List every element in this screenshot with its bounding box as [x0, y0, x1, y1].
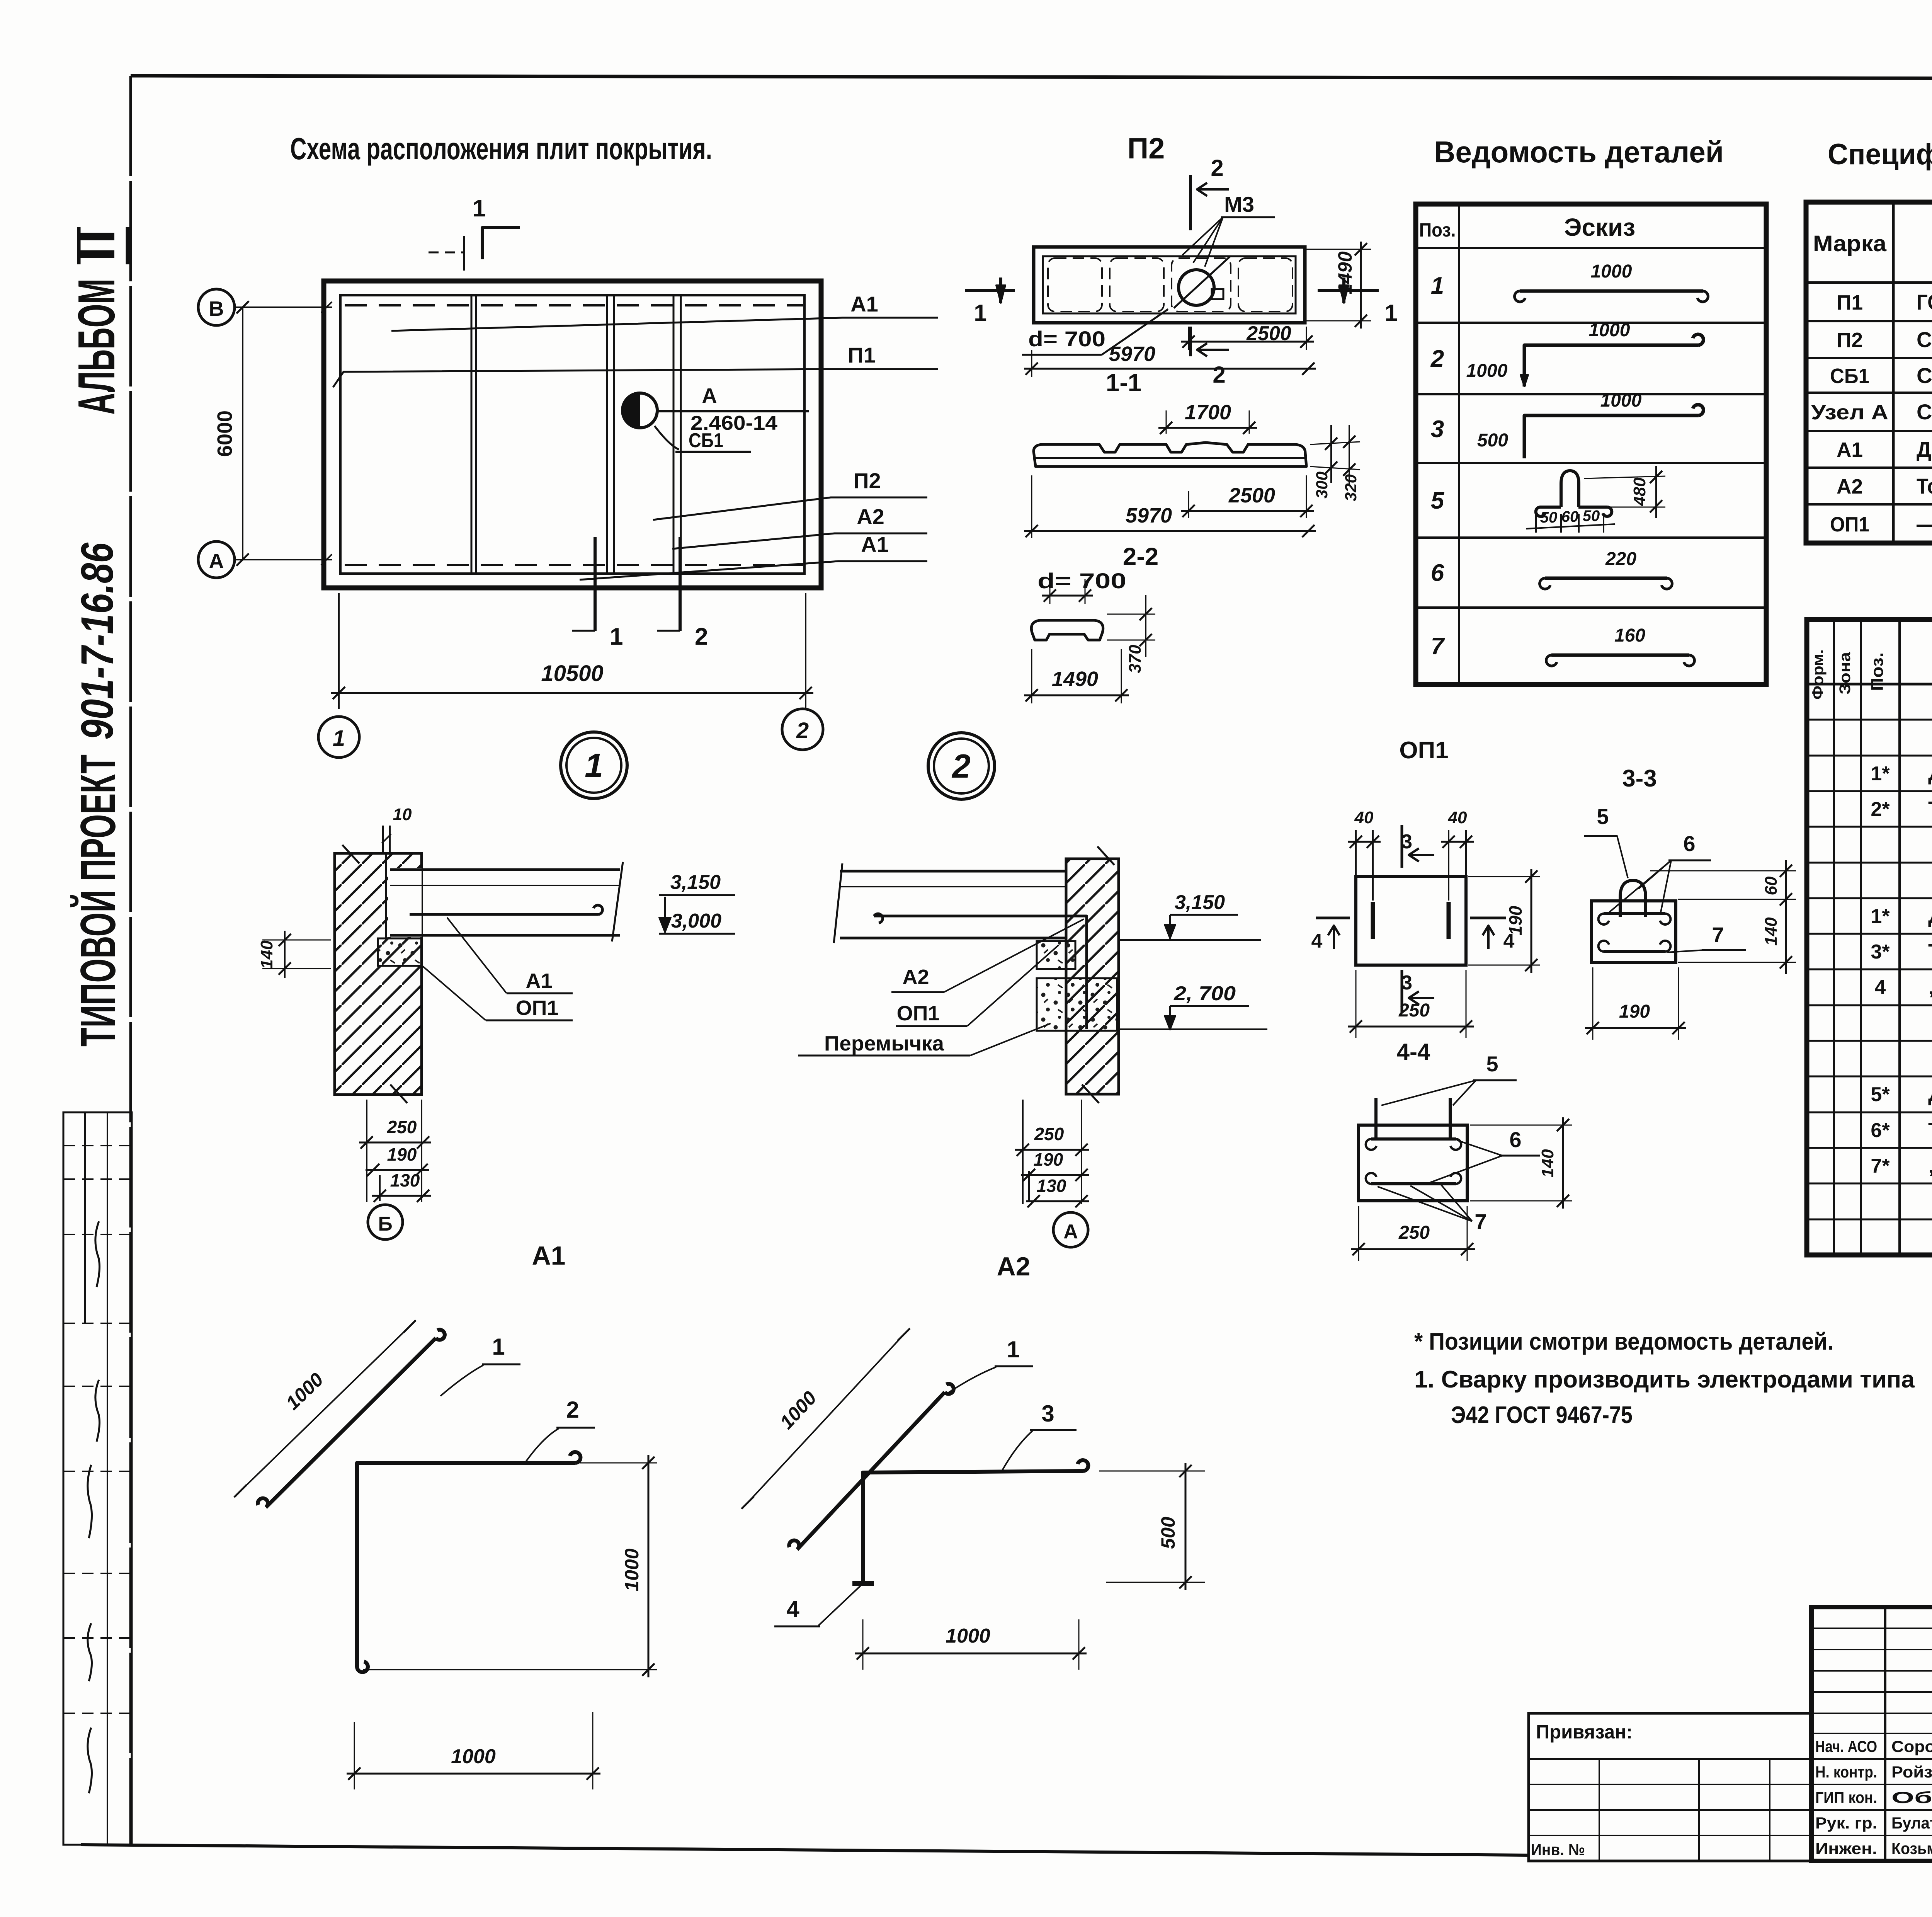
P2 dim 1490 right [1305, 249, 1371, 250]
svg-text:160: 160 [1614, 625, 1645, 646]
pos5 dim 480 [1584, 476, 1665, 478]
node A support pad stipple [1037, 941, 1075, 969]
svg-text:1. Сварку производить эл: 1. Сварку производить электродами типа [1414, 1366, 1915, 1393]
svg-text:1: 1 [1431, 272, 1444, 299]
svg-text:II: II [67, 226, 126, 261]
svg-text:2: 2 [1213, 362, 1225, 388]
spec table 2 row line [1807, 1219, 1932, 1221]
leader label A1 lower [580, 561, 927, 580]
svg-text:3: 3 [1041, 1401, 1054, 1427]
svg-text:1: 1 [333, 726, 345, 751]
svg-text:5: 5 [1486, 1052, 1498, 1076]
svg-text:220: 220 [1605, 549, 1636, 569]
left stamp strip column line 2 [107, 1112, 108, 1845]
svg-text:„: „ [1928, 1154, 1932, 1177]
svg-text:Зона: Зона [1837, 652, 1854, 695]
svg-text:140: 140 [1538, 1149, 1557, 1178]
node B slab break line [612, 862, 623, 941]
P2 dim 5970 [1031, 350, 1032, 377]
svg-text:Ройзман: Ройзман [1891, 1763, 1932, 1781]
svg-text:Марка: Марка [1813, 231, 1887, 256]
A2 pos4 plate [852, 1581, 874, 1586]
svg-text:901-7-16.86: 901-7-16.86 [72, 542, 123, 740]
svg-text:Поз.: Поз. [1419, 219, 1456, 241]
svg-text:Б: Б [378, 1213, 392, 1235]
svg-text:А1: А1 [526, 969, 552, 993]
svg-text:— „ —: — „ — [1917, 512, 1932, 536]
node B anchor bar [410, 905, 602, 914]
node B circle marker B [368, 1205, 403, 1239]
svg-text:300: 300 [1313, 472, 1331, 499]
svg-text:2500: 2500 [1228, 484, 1275, 507]
svg-text:40: 40 [1448, 808, 1467, 827]
left stamp strip row line [63, 1471, 132, 1472]
svg-text:М3: М3 [1224, 192, 1254, 216]
title block vertical lines [1884, 1607, 1886, 1861]
spec table 1 row line [1806, 503, 1932, 506]
4-4 dim 250 bottom [1358, 1206, 1359, 1261]
3-3 dim 190 bottom [1592, 967, 1594, 1040]
svg-text:Серия 2.460-14 в.0 лист3: Серия 2.460-14 в.0 лист3 [1917, 400, 1932, 424]
svg-text:3: 3 [1401, 972, 1412, 994]
rib section d=700 dim [1049, 579, 1051, 604]
svg-text:2: 2 [1430, 346, 1444, 372]
spec table 1 row line [1806, 320, 1932, 322]
spec table 2 row line [1807, 1004, 1932, 1006]
svg-text:250: 250 [1034, 1124, 1064, 1144]
OP1 dim 250 bottom [1355, 970, 1357, 1038]
node A anchor bar with down leg [874, 914, 1087, 1029]
A2 diagonal dimension 1000 [748, 1335, 904, 1503]
detail sketch pos5 lifting loop [1536, 507, 1561, 516]
svg-text:А1: А1 [850, 292, 878, 316]
svg-text:Серия 1.465.1-7/84 в.1: Серия 1.465.1-7/84 в.1 [1917, 327, 1932, 352]
svg-text:А2: А2 [902, 965, 929, 989]
svg-text:2: 2 [1211, 155, 1223, 181]
A1 diagonal bar pos1 [258, 1330, 445, 1507]
node A wall hatched [1066, 859, 1119, 1094]
svg-text:А1: А1 [532, 1241, 566, 1270]
svg-text:1700: 1700 [1185, 401, 1231, 424]
A2 right dim 500 [1099, 1471, 1205, 1472]
svg-text:3,000: 3,000 [671, 910, 721, 932]
A2 diagonal bar pos1 [789, 1384, 954, 1549]
svg-text:2: 2 [695, 623, 708, 650]
details table row line [1416, 536, 1766, 539]
left stamp strip row line [63, 1573, 132, 1574]
svg-text:1000: 1000 [1600, 390, 1642, 411]
sheet frame left line [129, 76, 132, 1845]
P2 plan rectangle [1034, 247, 1305, 323]
node B wall break marks [342, 845, 359, 863]
left stamp strip row line [63, 1323, 132, 1324]
svg-text:190: 190 [387, 1144, 417, 1165]
svg-text:„: „ [1928, 976, 1932, 999]
svg-text:А2: А2 [1837, 475, 1863, 498]
section 2-2 dim 2500 [1188, 491, 1189, 518]
P2 dim 2500 [1188, 327, 1189, 350]
P2 top section mark 2 [1189, 175, 1192, 230]
svg-text:ОП1: ОП1 [1399, 737, 1448, 764]
svg-text:7: 7 [1712, 923, 1724, 947]
left stamp strip row line [63, 1637, 132, 1639]
node A label lines [657, 410, 809, 412]
svg-text:6: 6 [1431, 560, 1444, 586]
details table row line [1416, 393, 1766, 395]
pos5 dims 50 60 50 [1536, 514, 1604, 533]
svg-text:Сорокин: Сорокин [1891, 1737, 1932, 1755]
svg-text:2, 700: 2, 700 [1173, 982, 1236, 1005]
detail circle 1 [561, 732, 627, 798]
details table row line [1416, 606, 1766, 609]
details table row line [1416, 322, 1766, 324]
spec table 1 row line [1806, 357, 1932, 359]
spec table 1 row line [1806, 466, 1932, 469]
axis leader A [235, 559, 332, 560]
svg-text:Данный лист: Данный лист [1917, 437, 1932, 461]
spec table 2 row line [1807, 1112, 1932, 1113]
svg-text:4: 4 [1875, 976, 1886, 999]
svg-text:1000: 1000 [1589, 320, 1630, 340]
svg-text:ТИПОВОЙ ПРОЕКТ: ТИПОВОЙ ПРОЕКТ [70, 754, 126, 1047]
svg-text:1*: 1* [1871, 763, 1890, 785]
svg-text:1: 1 [492, 1334, 505, 1360]
left stamp strip row line [63, 1178, 132, 1180]
spec table 1 row line [1806, 392, 1932, 394]
leader label P1 [333, 369, 938, 387]
detail sketch pos2 L-bar [1524, 334, 1703, 386]
svg-text:140: 140 [257, 940, 276, 969]
svg-text:Спецификация к схеме распо: Спецификация к схеме расположения плит п… [1828, 138, 1932, 171]
OP1 section mark 3 top [1401, 825, 1403, 868]
svg-text:d= 700: d= 700 [1028, 327, 1105, 351]
svg-text:40: 40 [1354, 808, 1374, 827]
leader label P2 [653, 497, 927, 520]
svg-text:500: 500 [1157, 1517, 1179, 1549]
spec table 2 row line [1807, 1040, 1932, 1042]
svg-text:Данный лист: Данный лист [1928, 904, 1932, 928]
3-3 top bar [1604, 912, 1665, 915]
P2 left section mark 1 [965, 289, 1015, 292]
svg-text:А: А [209, 550, 224, 573]
OP1 section mark 4 right [1470, 917, 1506, 919]
svg-text:6*: 6* [1871, 1119, 1890, 1142]
left stamp strip row line [63, 1145, 132, 1146]
bottom dimension 10500 [331, 692, 813, 694]
spec table 2 row line [1807, 1147, 1932, 1149]
plan top anchor dashed line [345, 304, 803, 306]
svg-text:В: В [209, 297, 224, 320]
svg-text:320: 320 [1342, 474, 1360, 501]
svg-text:П1: П1 [848, 343, 875, 367]
axis bubble 1 [318, 717, 359, 758]
4-4 vertical bars pos5 [1374, 1098, 1378, 1140]
node A bottom dims 250 190 130 [1022, 1100, 1024, 1204]
title block revision grid rows [1811, 1628, 1932, 1629]
spec table 2 outer box [1807, 620, 1932, 1255]
svg-text:3-3: 3-3 [1622, 765, 1657, 792]
svg-text:Инжен.: Инжен. [1815, 1839, 1877, 1857]
plate joint line b [606, 296, 608, 573]
A1 diagonal dimension 1000 [240, 1326, 410, 1491]
svg-text:60: 60 [1762, 876, 1781, 895]
svg-text:480: 480 [1630, 477, 1649, 506]
svg-text:Перемычка: Перемычка [824, 1032, 944, 1055]
svg-text:3,150: 3,150 [670, 871, 721, 894]
svg-text:Козьмина: Козьмина [1891, 1839, 1932, 1857]
svg-text:250: 250 [1398, 1222, 1430, 1243]
svg-text:П2: П2 [1128, 132, 1165, 165]
svg-text:Узел А: Узел А [1811, 401, 1888, 424]
svg-text:3: 3 [1431, 416, 1444, 443]
svg-text:190: 190 [1034, 1149, 1063, 1170]
bottom section cut 1 [594, 537, 597, 631]
svg-text:То же: То же [1928, 940, 1932, 963]
detail circle 2 [928, 733, 995, 799]
svg-text:6: 6 [1509, 1127, 1521, 1152]
bottom dimension extension lines [338, 593, 340, 709]
svg-text:ОП1: ОП1 [1830, 513, 1869, 536]
node B slab [390, 868, 620, 871]
plate joint line a [471, 296, 473, 573]
spec table 1 outer box [1806, 202, 1932, 543]
svg-text:2: 2 [566, 1397, 579, 1423]
OP1 section mark 3 bottom [1401, 970, 1403, 1013]
svg-text:СБ1: СБ1 [1830, 364, 1869, 388]
svg-text:3: 3 [1401, 831, 1412, 853]
node B wall hatched [335, 853, 422, 1095]
svg-text:7: 7 [1475, 1209, 1486, 1234]
svg-text:2-2: 2-2 [1123, 543, 1159, 570]
sheet frame top line [131, 76, 1932, 79]
plan inner wall rectangle [340, 295, 804, 574]
A2 bottom dim 1000 [862, 1619, 864, 1670]
detail node A circle on plan [622, 393, 657, 428]
detail sketch pos7 bar [1551, 654, 1689, 657]
section 2-2 dim 5970 [1031, 475, 1032, 538]
rib section dim 370 [1107, 614, 1155, 615]
svg-text:2*: 2* [1871, 798, 1890, 821]
detail sketch pos1 bar [1520, 289, 1703, 293]
svg-text:6000: 6000 [213, 410, 236, 457]
svg-text:Ведомость деталей: Ведомость деталей [1434, 135, 1724, 169]
node A slab break line [834, 863, 842, 943]
plan outer wall rectangle [324, 281, 821, 588]
left stamp strip outer box [63, 1112, 132, 1845]
P2 bottom section mark 2 [1189, 327, 1192, 356]
axis leader B [235, 306, 332, 308]
svg-text:1: 1 [473, 195, 486, 222]
leader label A2 [672, 533, 927, 549]
node B bottom dims 250 190 130 [366, 1100, 367, 1202]
svg-text:140: 140 [1762, 917, 1781, 946]
svg-text:1: 1 [610, 623, 623, 650]
svg-text:Обух: Обух [1891, 1788, 1932, 1806]
svg-text:1000: 1000 [1591, 261, 1632, 282]
axis circle A [198, 541, 235, 578]
svg-text:Рук. гр.: Рук. гр. [1815, 1814, 1877, 1832]
svg-text:ГИП кон.: ГИП кон. [1815, 1788, 1877, 1806]
spec table 2 row line [1807, 1183, 1932, 1185]
detail sketch pos3 L-bar [1524, 405, 1703, 458]
svg-text:А1: А1 [861, 532, 889, 557]
spec table 2 row line [1807, 1076, 1932, 1078]
svg-text:3,150: 3,150 [1175, 891, 1225, 914]
title block signature rows [1811, 1733, 1932, 1734]
plan bottom anchor dashed line [345, 564, 803, 566]
node A slab [840, 870, 1066, 873]
svg-text:1: 1 [1007, 1336, 1019, 1362]
svg-text:2: 2 [951, 748, 971, 785]
svg-text:1490: 1490 [1334, 251, 1356, 294]
spec table 1 row line [1806, 430, 1932, 432]
svg-text:1-1: 1-1 [1106, 369, 1142, 397]
section 2-2 slab profile [1034, 443, 1306, 466]
svg-text:5*: 5* [1871, 1083, 1890, 1106]
svg-text:1000: 1000 [1466, 361, 1508, 381]
svg-text:1: 1 [585, 747, 603, 784]
svg-text:Н. контр.: Н. контр. [1815, 1763, 1877, 1781]
svg-text:6: 6 [1683, 831, 1695, 856]
A1 bottom dim 1000 [354, 1722, 355, 1789]
svg-text:1000: 1000 [621, 1548, 643, 1591]
node A wall break marks [1097, 846, 1114, 865]
node B support pad OP1 [378, 938, 422, 966]
svg-text:Серия 1.494-24 в.1: Серия 1.494-24 в.1 [1917, 363, 1932, 388]
node A lintel stipple [1037, 978, 1117, 1031]
svg-text:500: 500 [1477, 430, 1508, 451]
spec table 2 row line [1807, 790, 1932, 792]
svg-text:1000: 1000 [451, 1745, 496, 1768]
OP1 dim 190 right [1468, 876, 1540, 877]
svg-text:1490: 1490 [1052, 667, 1098, 691]
P2 opening circle [1179, 270, 1214, 305]
details table outer box [1416, 204, 1766, 684]
svg-text:7: 7 [1431, 633, 1445, 660]
svg-text:5970: 5970 [1126, 504, 1172, 527]
P2 plan cell dashed rects [1048, 258, 1102, 312]
svg-text:4: 4 [1311, 930, 1323, 952]
spec table 2 row line [1807, 826, 1932, 828]
svg-text:130: 130 [1037, 1176, 1066, 1196]
svg-text:А: А [1063, 1221, 1078, 1243]
svg-text:ГОСТ 22701.1-77: ГОСТ 22701.1-77 [1917, 290, 1932, 314]
svg-text:Данный лист: Данный лист [1928, 1083, 1932, 1106]
svg-text:П1: П1 [1837, 291, 1863, 314]
svg-text:4-4: 4-4 [1397, 1039, 1430, 1065]
svg-text:2: 2 [796, 718, 809, 743]
svg-text:10: 10 [393, 805, 412, 824]
svg-text:5: 5 [1431, 487, 1445, 514]
svg-text:Данный лист: Данный лист [1928, 762, 1932, 785]
svg-text:d= 700: d= 700 [1037, 569, 1126, 593]
3-3 dims 60 140 [1650, 870, 1796, 872]
svg-text:60: 60 [1561, 508, 1579, 525]
left stamp strip row line [63, 1713, 132, 1714]
A1 right dim 1000 [580, 1462, 657, 1464]
plate joint line c [673, 296, 675, 573]
svg-text:50: 50 [1540, 509, 1558, 526]
svg-text:А1: А1 [1837, 438, 1863, 461]
svg-text:7*: 7* [1871, 1155, 1890, 1177]
4-4 dim 140 right [1470, 1125, 1572, 1126]
left stamp strip handwriting [95, 1221, 100, 1287]
svg-text:5: 5 [1597, 804, 1609, 829]
svg-text:1: 1 [974, 300, 986, 326]
spec table 2 row line [1807, 969, 1932, 970]
title block outer box [1811, 1607, 1932, 1861]
svg-text:10500: 10500 [541, 661, 603, 686]
4-4 rect [1359, 1125, 1467, 1201]
svg-text:Форм.: Форм. [1810, 649, 1827, 700]
svg-text:5970: 5970 [1109, 342, 1155, 366]
P2 right section mark 1 [1318, 289, 1379, 292]
svg-text:Эскиз: Эскиз [1564, 213, 1635, 241]
OP1 inner bars [1371, 902, 1375, 939]
svg-text:Нач. АСО: Нач. АСО [1815, 1737, 1877, 1755]
svg-text:3*: 3* [1871, 941, 1890, 963]
detail sketch pos6 bar [1545, 577, 1667, 580]
svg-text:То же: То же [1917, 474, 1932, 498]
svg-text:То же: То же [1928, 1119, 1932, 1142]
svg-text:4: 4 [786, 1596, 799, 1622]
4-4 bottom bar [1371, 1182, 1456, 1185]
svg-text:ОП1: ОП1 [897, 1002, 940, 1025]
svg-text:П2: П2 [853, 468, 881, 493]
bottom section cut 2 [679, 537, 682, 631]
spec table 2 column lines [1833, 620, 1835, 1255]
svg-text:Поз.: Поз. [1868, 652, 1887, 691]
spec table 2 header line [1807, 683, 1932, 686]
svg-text:250: 250 [387, 1117, 417, 1137]
OP1 section mark 4 left [1316, 917, 1350, 919]
details table row line [1416, 462, 1766, 464]
spec table 2 row line [1807, 755, 1932, 757]
svg-text:2500: 2500 [1246, 322, 1291, 345]
3-3 bottom bar [1604, 950, 1665, 953]
P2 small box near circle [1212, 289, 1223, 299]
4-4 top bar [1371, 1137, 1456, 1141]
spec table 2 row line [1807, 719, 1932, 721]
node A circle marker A [1053, 1212, 1088, 1247]
section 2-2 dim 1700 [1166, 410, 1167, 434]
top section cut mark 1 [482, 228, 520, 259]
svg-text:ОП1: ОП1 [516, 996, 559, 1020]
OP1 plan rect [1356, 877, 1466, 965]
spec table 1 header row line [1806, 281, 1932, 284]
node B dim 140 left [262, 940, 331, 941]
svg-text:Инв. №: Инв. № [1531, 1840, 1585, 1859]
spec table 2 row line [1807, 897, 1932, 899]
P2 plan inner rect [1043, 256, 1296, 313]
privyazan box [1529, 1713, 1811, 1861]
svg-text:190: 190 [1505, 906, 1526, 935]
svg-text:* Позиции смотри ведомость: * Позиции смотри ведомость деталей. [1414, 1328, 1833, 1355]
svg-text:Булатова: Булатова [1891, 1814, 1932, 1832]
svg-text:50: 50 [1583, 507, 1600, 524]
svg-text:А: А [702, 384, 717, 407]
node B level arrow [664, 897, 666, 922]
node B wall inner face line [385, 853, 387, 938]
spec table 1 column lines [1892, 202, 1895, 543]
axis circle B [198, 289, 235, 325]
3-3 lifting loop [1620, 880, 1646, 917]
sheet frame bottom line [81, 1845, 1529, 1855]
svg-text:1*: 1* [1871, 905, 1890, 928]
details table header line [1416, 247, 1766, 249]
leader label A1 top-right [391, 318, 938, 331]
svg-text:Привязан:: Привязан: [1536, 1721, 1633, 1743]
